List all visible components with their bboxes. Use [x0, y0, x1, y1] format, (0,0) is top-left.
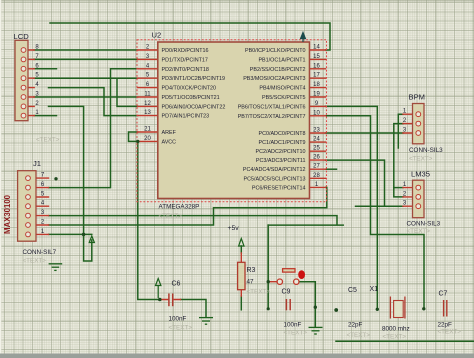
svg-text:PB7/TOSC2/XTAL2/PCINT7: PB7/TOSC2/XTAL2/PCINT7: [238, 114, 306, 120]
svg-text:CONN-SIL3: CONN-SIL3: [409, 147, 443, 154]
wire button right to ground: [299, 282, 315, 327]
svg-text:C7: C7: [439, 291, 448, 298]
U2 left pin labels: [162, 48, 226, 145]
svg-text:24: 24: [313, 137, 320, 143]
wire BPM pin2 down to LM35 pin2: [394, 124, 403, 197]
svg-text:PD6/AIN0/OC0A/PCINT22: PD6/AIN0/OC0A/PCINT22: [162, 104, 226, 110]
svg-text:PC1/ADC1/PCINT9: PC1/ADC1/PCINT9: [258, 140, 305, 146]
C6 text placeholder: [169, 325, 193, 332]
label J1: [33, 159, 41, 168]
C6 value 100nF: [169, 316, 187, 323]
svg-text:100nF: 100nF: [284, 322, 302, 329]
wire U2 PC4 SDA stub: [326, 168, 337, 170]
svg-text:PB1/OC1A/PCINT1: PB1/OC1A/PCINT1: [258, 57, 305, 63]
left edge light strip: [0, 0, 1, 358]
resistor R3 leads: [240, 253, 242, 296]
wire J1 pin1 row with return loop: [49, 234, 92, 261]
wire AVCC rail down to C6: [138, 141, 160, 299]
resistor R3 body: [238, 262, 245, 289]
C5 value 22pF: [348, 322, 363, 329]
op U2 selection dashed box: [137, 40, 327, 202]
LCD pin circles: [21, 48, 26, 118]
wire button left vertical: [268, 225, 343, 309]
LM35 text placeholder: [407, 228, 431, 235]
U2 left pin numbers: [144, 45, 151, 142]
C7 text placeholder: [438, 329, 462, 336]
+5v power arrow: [239, 239, 244, 247]
wire LCD pin6 stub: [34, 68, 57, 70]
capacitor C9 plates: [286, 299, 290, 310]
svg-text:2: 2: [35, 101, 39, 107]
pushbutton: [277, 269, 305, 285]
svg-text:<TEXT>: <TEXT>: [159, 213, 183, 220]
label X1: [370, 286, 379, 293]
wire LCD pin8 to U2 pin2 (PD0): [34, 49, 138, 51]
svg-text:4: 4: [35, 82, 39, 88]
BPM value CONN-SIL3: [409, 147, 443, 154]
svg-text:<TEXT>: <TEXT>: [347, 332, 371, 339]
LCD pin numbers: [35, 45, 39, 117]
pin stubs J1: [36, 178, 49, 234]
wire LCD pin7 to U2 pin3 (PD1): [34, 58, 138, 60]
wire C6 right lead to ground: [181, 300, 207, 318]
U2 right pin labels: [238, 48, 306, 191]
connector BPM box: [413, 104, 425, 144]
svg-text:PD1/TXD/PCINT17: PD1/TXD/PCINT17: [162, 57, 208, 63]
pin stubs U2 right PC: [310, 133, 326, 187]
svg-text:23: 23: [313, 128, 320, 134]
svg-text:15: 15: [313, 54, 320, 60]
U2 right pin numbers: [313, 45, 320, 188]
pin stubs U2 left: [138, 50, 158, 141]
svg-text:PD7/AIN1/PCINT23: PD7/AIN1/PCINT23: [162, 114, 210, 120]
svg-text:PB0/ICP1/CLKO/PCINT0: PB0/ICP1/CLKO/PCINT0: [245, 48, 306, 54]
wire top bus to U2 pin14 (PB0): [50, 23, 330, 50]
U2 text placeholder: [159, 213, 183, 220]
connector LM35 box: [413, 180, 425, 218]
svg-text:18: 18: [313, 82, 320, 88]
wire BPM pin1 stub down: [398, 114, 403, 148]
capacitor C7 plates: [444, 300, 447, 317]
label LCD: [14, 32, 30, 41]
svg-text:12: 12: [144, 101, 151, 107]
svg-text:AVCC: AVCC: [162, 139, 177, 145]
U2 origin marker arrow: [301, 33, 306, 43]
svg-text:X1: X1: [370, 286, 379, 293]
capacitor C6 plates: [169, 294, 173, 307]
BPM pin numbers: [403, 109, 407, 134]
svg-text:25: 25: [313, 146, 320, 152]
wire LCD pin1 stub: [34, 115, 57, 117]
svg-text:MAX30100: MAX30100: [3, 194, 12, 234]
wire U2 PC0 to BPM pin3: [326, 132, 404, 134]
label C6: [172, 281, 181, 288]
svg-text:PD3/INT1/OC2B/PCINT19: PD3/INT1/OC2B/PCINT19: [162, 76, 226, 82]
capacitor C6 leads: [162, 299, 181, 301]
wire AREF to AVCC bracket: [129, 132, 138, 141]
pin stubs LCD: [28, 50, 34, 116]
BPM pin circles: [416, 112, 421, 136]
svg-text:PB4/MISO/PCINT4: PB4/MISO/PCINT4: [259, 86, 305, 92]
BPM text placeholder: [409, 156, 433, 163]
svg-text:<TEXT>: <TEXT>: [438, 329, 462, 336]
wire LM35 pin1 tap: [394, 187, 403, 189]
svg-text:C9: C9: [282, 289, 291, 296]
svg-text:10: 10: [313, 110, 320, 116]
svg-text:16: 16: [313, 63, 320, 69]
C6 power arrow: [156, 279, 161, 299]
svg-text:14: 14: [313, 45, 320, 51]
svg-text:8000 mhz: 8000 mhz: [382, 326, 410, 333]
svg-text:PD4/T0/XCK/PCINT20: PD4/T0/XCK/PCINT20: [162, 86, 217, 92]
svg-text:17: 17: [313, 73, 320, 79]
svg-text:11: 11: [144, 92, 151, 98]
ground under button: [309, 327, 323, 334]
crystal X1: [390, 297, 405, 319]
svg-text:27: 27: [313, 164, 320, 170]
label C9: [282, 289, 291, 296]
X1 value 8000 mhz: [382, 326, 410, 333]
label R3: [247, 267, 256, 274]
svg-text:<TEXT>: <TEXT>: [284, 330, 308, 337]
svg-text:PC4/ADC4/SDA/PCINT12: PC4/ADC4/SDA/PCINT12: [243, 167, 306, 173]
svg-text:LM35: LM35: [411, 170, 430, 179]
svg-text:CONN-SIL3: CONN-SIL3: [407, 220, 441, 227]
svg-text:26: 26: [313, 155, 320, 161]
wire R3 bottom lead: [240, 296, 242, 310]
svg-text:20: 20: [144, 136, 151, 142]
svg-text:U2: U2: [152, 31, 162, 40]
U2 MCU body: [158, 42, 310, 199]
svg-text:<TEXT>: <TEXT>: [407, 228, 431, 235]
wire R3 top to +5v arrow: [240, 246, 242, 253]
bottom status bar: [0, 354, 474, 358]
wire J1 pin6 to U2 pin4 (PD2): [49, 69, 138, 188]
ground under C6: [199, 318, 213, 325]
button left stub: [268, 281, 276, 283]
svg-text:PB6/TOSC1/XTAL1/PCINT6: PB6/TOSC1/XTAL1/PCINT6: [238, 104, 306, 110]
svg-text:AREF: AREF: [162, 130, 177, 136]
svg-text:C5: C5: [348, 287, 357, 294]
C9 value 100nF: [284, 322, 302, 329]
svg-text:CONN-SIL7: CONN-SIL7: [23, 249, 57, 256]
X1 text placeholder: [383, 334, 407, 341]
svg-text:<TEXT>: <TEXT>: [23, 258, 47, 265]
wire LCD pin2 down to J1 pin1: [49, 106, 84, 234]
wire U2 PC3 to LM35 pin3: [326, 160, 404, 206]
wire bottom right bus: [336, 340, 474, 342]
svg-text:PC6/RESET/PCINT14: PC6/RESET/PCINT14: [252, 185, 306, 191]
svg-text:PC2/ADC2/PCINT10: PC2/ADC2/PCINT10: [255, 149, 305, 155]
svg-text:R3: R3: [247, 267, 256, 274]
R3 text placeholder: [247, 289, 271, 296]
wire LCD pin4 to U2 pin12 jog: [49, 88, 138, 116]
svg-text:PB2/SS/OC1B/PCINT2: PB2/SS/OC1B/PCINT2: [250, 67, 306, 73]
svg-text:<TEXT>: <TEXT>: [409, 156, 433, 163]
svg-text:100nF: 100nF: [169, 316, 187, 323]
R3 value 47: [247, 279, 255, 286]
label MAX30100 vertical: [3, 194, 12, 234]
svg-text:LCD: LCD: [14, 32, 30, 41]
label U2: [152, 31, 162, 40]
svg-text:PC0/ADC0/PCINT8: PC0/ADC0/PCINT8: [258, 131, 305, 137]
pin stubs U2 right PB: [310, 50, 326, 116]
svg-text:+5v: +5v: [228, 225, 240, 232]
svg-text:PD2/INT0/PCINT18: PD2/INT0/PCINT18: [162, 67, 209, 73]
svg-text:19: 19: [313, 92, 320, 98]
svg-text:ATMEGA328P: ATMEGA328P: [159, 204, 200, 211]
svg-text:PD5/T1/OC0B/PCINT21: PD5/T1/OC0B/PCINT21: [162, 95, 220, 101]
J1 text placeholder: [23, 258, 47, 265]
LCD text placeholder: [36, 137, 60, 144]
wire LCD pin3 to U2 pin11 (PD5): [34, 96, 138, 98]
svg-text:22pF: 22pF: [348, 322, 363, 329]
LM35 pin circles: [416, 185, 421, 208]
J1 return arrow head: [89, 236, 94, 243]
LM35 value CONN-SIL3: [407, 220, 441, 227]
svg-text:BPM: BPM: [409, 93, 425, 102]
U2 value ATMEGA328P: [159, 204, 200, 211]
svg-text:PC5/ADC5/SCL/PCINT13: PC5/ADC5/SCL/PCINT13: [243, 176, 305, 182]
label +5v: [228, 225, 240, 232]
J1 value CONN-SIL7: [23, 249, 57, 256]
J1 pin numbers: [41, 173, 45, 235]
svg-text:<TEXT>: <TEXT>: [247, 289, 271, 296]
svg-text:PD0/RXD/PCINT16: PD0/RXD/PCINT16: [162, 48, 209, 54]
svg-text:<TEXT>: <TEXT>: [169, 325, 193, 332]
LCD connector box: [15, 40, 28, 120]
svg-text:PB5/SCK/PCINT5: PB5/SCK/PCINT5: [262, 95, 305, 101]
svg-text:J1: J1: [33, 159, 41, 168]
label C7: [439, 291, 448, 298]
ground near J1: [49, 264, 63, 271]
pin stubs LM35: [403, 188, 413, 207]
label BPM: [409, 93, 425, 102]
svg-text:47: 47: [247, 279, 255, 286]
J1 pin circles: [26, 176, 31, 237]
wire U2 pin9 XTAL1 down to crystal: [326, 106, 378, 308]
pin stubs BPM: [403, 114, 413, 133]
svg-text:C6: C6: [172, 281, 181, 288]
label LM35: [411, 170, 430, 179]
wire U2 pin10 XTAL2 down to crystal right: [326, 116, 425, 308]
connector J1 box: [18, 171, 36, 242]
C9 text placeholder: [284, 330, 308, 337]
wire LCD pin5 to U2 pin5 (PD3): [34, 77, 138, 79]
svg-text:PC3/ADC3/PCINT11: PC3/ADC3/PCINT11: [256, 158, 306, 164]
svg-text:<TEXT>: <TEXT>: [383, 334, 407, 341]
svg-text:PB3/MOSI/OC2A/PCINT3: PB3/MOSI/OC2A/PCINT3: [243, 76, 305, 82]
svg-text:13: 13: [144, 110, 151, 116]
svg-text:28: 28: [313, 173, 320, 179]
wire J1 pin2 to U2 pin1 RESET: [49, 187, 327, 225]
svg-text:<TEXT>: <TEXT>: [36, 137, 60, 144]
svg-text:22pF: 22pF: [438, 322, 453, 329]
label C5: [348, 287, 357, 294]
svg-text:21: 21: [144, 127, 151, 133]
wire J1 pin3 down right: [49, 216, 338, 225]
LM35 pin numbers: [403, 182, 407, 207]
wire tap to U2 pin12 (PD6): [117, 78, 138, 106]
C5 text placeholder: [347, 332, 371, 339]
C7 value 22pF: [438, 322, 453, 329]
